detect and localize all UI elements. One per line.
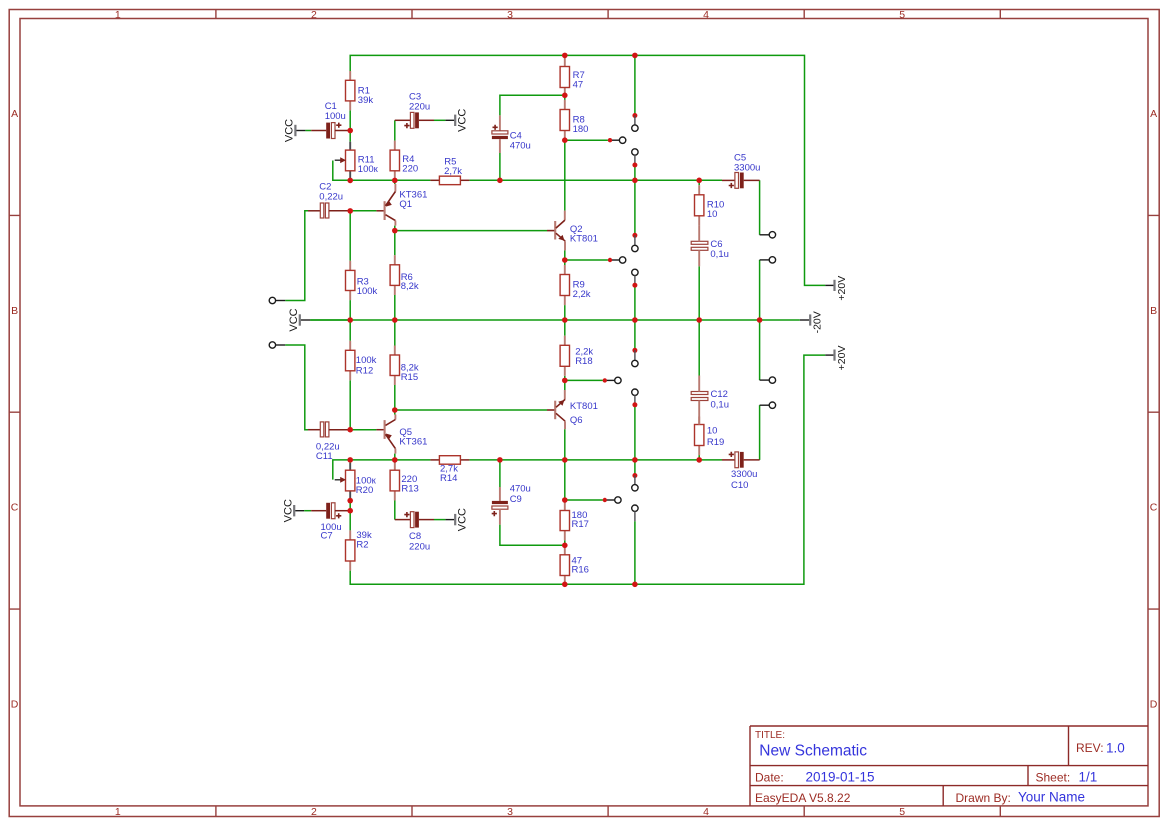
- terminal stub: [760, 379, 770, 381]
- svg-text:A: A: [11, 108, 18, 120]
- junction x7 riser mid rail: [757, 317, 763, 323]
- jumper pin dot: [632, 402, 637, 407]
- capacitor C8: [395, 519, 411, 521]
- wire jumper column x5: [634, 55, 636, 584]
- jumper pin dot: [632, 113, 637, 118]
- wire C9 top: [499, 460, 501, 487]
- wire mid rail: [310, 319, 800, 321]
- resistor R8: [564, 100, 566, 110]
- svg-text:4: 4: [703, 9, 709, 21]
- svg-text:2,2k: 2,2k: [573, 289, 591, 300]
- jumper pin dot: [632, 163, 637, 168]
- jumper pin stub: [634, 476, 636, 485]
- wire R8 junction to Q2 collector: [564, 140, 566, 210]
- svg-text:D: D: [1150, 698, 1158, 710]
- resistor R3: [349, 261, 351, 271]
- svg-text:R19: R19: [707, 437, 724, 448]
- svg-text:KT361: KT361: [399, 436, 427, 447]
- svg-text:Sheet:: Sheet:: [1036, 771, 1071, 785]
- jumper pin circle: [632, 245, 638, 251]
- input terminal 1 circle: [269, 297, 275, 303]
- wire R18 stub: [565, 379, 603, 381]
- junction C2/R3 node: [347, 208, 353, 214]
- svg-text:VCC: VCC: [457, 109, 469, 132]
- svg-text:47: 47: [573, 79, 584, 90]
- junction R20 wiper rail: [347, 457, 353, 463]
- junction Q2 emitter stub node: [562, 257, 568, 263]
- wire input 1 to C2 row: [285, 211, 308, 301]
- wire C3 corner to R4: [394, 120, 396, 140]
- junction Q6 collector rail: [562, 457, 568, 463]
- junction jumper col mid rail: [632, 317, 638, 323]
- wire x7 mid rail to stub: [759, 320, 761, 380]
- wire C2 junction to Q1 base: [350, 210, 376, 212]
- wire C6 bottom to mid rail: [698, 266, 700, 320]
- svg-text:Date:: Date:: [755, 771, 784, 785]
- capacitor C9: [499, 487, 501, 501]
- junction C9 rail: [497, 457, 503, 463]
- junction C1/R1/R11 node: [347, 128, 353, 134]
- wire R15 bottom to Q5 node: [394, 385, 396, 410]
- resistor R2: [349, 530, 351, 540]
- junction jumper col top rail: [632, 53, 638, 59]
- terminal stub: [612, 139, 620, 141]
- resistor R4: [394, 141, 396, 151]
- wire R20 junction to R2: [349, 501, 351, 531]
- svg-text:1/1: 1/1: [1079, 770, 1098, 785]
- terminal circle: [619, 137, 625, 143]
- wire R7/R8 junction to C4: [500, 95, 565, 115]
- VCC lead at C8: [445, 519, 454, 521]
- svg-text:180: 180: [573, 124, 589, 135]
- wire R15 top: [394, 320, 396, 346]
- wire Q2 emitter node: [565, 250, 608, 265]
- svg-text:3300u: 3300u: [731, 469, 757, 480]
- terminal circle: [619, 257, 625, 263]
- jumper pin circle: [632, 485, 638, 491]
- -20V symbol: [809, 314, 811, 325]
- svg-text:Your Name: Your Name: [1018, 790, 1085, 805]
- jumper pin circle: [632, 149, 638, 155]
- ruler ticks top: [216, 10, 1000, 19]
- wire x7 to C10: [759, 405, 761, 460]
- wire top rail: [350, 55, 825, 285]
- svg-text:2,7k: 2,7k: [444, 166, 462, 177]
- wire R12 top: [349, 320, 351, 341]
- svg-text:1: 1: [115, 806, 121, 818]
- capacitor C6: [691, 241, 708, 244]
- wire input 2 to C11 row: [285, 345, 308, 430]
- terminal circle: [769, 377, 775, 383]
- wire R18 top: [564, 320, 566, 336]
- junction R7 top rail: [562, 53, 568, 59]
- wire C5 left: [699, 179, 722, 181]
- wire Q5 node to Q6 base: [395, 410, 547, 415]
- svg-text:8,2k: 8,2k: [401, 281, 419, 292]
- capacitor C10: [722, 459, 735, 461]
- junction C6/C12 mid rail: [696, 317, 702, 323]
- resistor R1: [349, 71, 351, 80]
- junction R20 bottom node: [347, 498, 353, 504]
- svg-text:220: 220: [402, 163, 418, 174]
- junction jumper col bottom rail: [632, 582, 638, 588]
- -20V lead: [800, 319, 809, 321]
- svg-text:VCC: VCC: [288, 308, 300, 331]
- svg-text:VCC: VCC: [282, 499, 294, 522]
- svg-text:KT801: KT801: [570, 233, 598, 244]
- junction R8/Q2 stub node: [562, 137, 568, 143]
- svg-text:C9: C9: [510, 494, 522, 505]
- wire C5 right riser: [759, 180, 761, 235]
- resistor R18: [564, 336, 566, 346]
- jumper pin circle: [632, 389, 638, 395]
- jumper pin circle: [632, 360, 638, 366]
- junction R11 wiper rail: [347, 178, 353, 184]
- svg-text:4: 4: [703, 806, 709, 818]
- wire R13 bottom to C8 corner: [394, 501, 396, 520]
- svg-text:B: B: [11, 305, 18, 317]
- svg-text:39k: 39k: [358, 95, 374, 106]
- wire Q6 collector to rail2: [564, 429, 566, 460]
- resistor R19: [698, 417, 700, 425]
- wire rail2 to R17 junction: [564, 460, 566, 500]
- wire R19 bottom to rail2: [698, 455, 700, 460]
- terminal stub: [612, 259, 620, 261]
- svg-text:2019-01-15: 2019-01-15: [806, 770, 875, 785]
- terminal circle: [615, 497, 621, 503]
- junction R18/Q6 stub node: [562, 378, 568, 384]
- junction C11/R12 node: [347, 427, 353, 433]
- terminal stub: [607, 379, 615, 381]
- junction R4/Q1 rail: [392, 178, 398, 184]
- transistor Q2: [547, 211, 598, 251]
- ruler ticks bottom: [216, 806, 1000, 817]
- junction C7/R2 node: [347, 508, 353, 514]
- capacitor C1: [305, 130, 311, 132]
- wire C4 to rail1: [499, 153, 501, 180]
- wire rail1 right segment: [469, 179, 722, 181]
- VCC lead at C3: [445, 119, 454, 121]
- resistor R5: [430, 179, 439, 181]
- VCC symbol at C7: [293, 505, 295, 516]
- wire C11 junction to Q5 base: [350, 429, 376, 431]
- VCC lead at C7: [295, 510, 304, 512]
- svg-text:C: C: [1150, 502, 1158, 514]
- wire R3 top: [349, 211, 351, 261]
- jumper pin dot: [632, 233, 637, 238]
- wire mid VCC lead: [310, 319, 350, 321]
- transistor Q5: [385, 415, 428, 454]
- wire rail1 left segment: [333, 161, 431, 181]
- svg-text:VCC: VCC: [284, 119, 296, 142]
- resistor R12: [349, 341, 351, 351]
- wire R20 junction pair: [349, 460, 351, 463]
- svg-text:R13: R13: [401, 484, 418, 495]
- VCC symbol at C8: [454, 514, 456, 525]
- terminal stub: [760, 404, 770, 406]
- terminal dot: [603, 498, 607, 502]
- svg-text:R20: R20: [356, 485, 373, 496]
- svg-text:+20V: +20V: [836, 276, 848, 301]
- svg-text:-20V: -20V: [811, 311, 823, 333]
- svg-text:10: 10: [707, 425, 718, 436]
- svg-text:VCC: VCC: [457, 508, 469, 531]
- svg-text:R14: R14: [440, 473, 457, 484]
- jumper pin stub: [634, 235, 636, 245]
- jumper pin stub: [634, 395, 636, 405]
- wire R17 stub: [565, 499, 603, 501]
- junction R6/R15 mid rail: [392, 317, 398, 323]
- resistor R14: [430, 459, 439, 461]
- svg-text:+20V: +20V: [836, 345, 848, 370]
- svg-text:3: 3: [507, 9, 513, 21]
- wire x7 lower segment to mid rail: [759, 260, 761, 320]
- title block lines: [750, 726, 1148, 806]
- svg-text:A: A: [1150, 108, 1157, 120]
- terminal stub: [760, 234, 770, 236]
- svg-text:R17: R17: [572, 519, 589, 530]
- wire mid rail to C12: [698, 320, 700, 376]
- jumper pin stub: [634, 116, 636, 126]
- svg-text:0,22u: 0,22u: [319, 191, 343, 202]
- wire R10 top: [698, 180, 700, 185]
- svg-text:10: 10: [707, 209, 718, 220]
- svg-text:B: B: [1150, 305, 1157, 317]
- wire R13 top: [394, 460, 396, 470]
- svg-text:100к: 100к: [358, 164, 379, 175]
- ruler ticks left: [9, 215, 20, 609]
- svg-text:100k: 100k: [357, 286, 378, 297]
- terminal dot: [608, 138, 612, 142]
- terminal dot: [603, 378, 607, 382]
- terminal stub: [760, 259, 770, 261]
- jumper pin stub: [634, 275, 636, 285]
- svg-text:0,1u: 0,1u: [710, 249, 729, 260]
- ruler ticks right: [1148, 215, 1159, 609]
- wire C1 junction to R11: [349, 131, 351, 142]
- resistor R15: [394, 346, 396, 356]
- wire R12 bottom to C11 junction: [349, 380, 351, 429]
- transistor Q6: [547, 390, 598, 429]
- transistor Q1: [385, 180, 428, 225]
- jumper pin dot: [632, 283, 637, 288]
- junction R17 stub node: [562, 497, 568, 503]
- junction Q1 emitter node: [392, 228, 398, 234]
- terminal dot: [608, 258, 612, 262]
- wire Q1 emitter node to Q2 base and R6: [395, 226, 547, 256]
- svg-text:220u: 220u: [409, 541, 430, 552]
- junction Q5 collector node: [392, 407, 398, 413]
- capacitor C4: [499, 115, 501, 130]
- svg-text:Drawn By:: Drawn By:: [956, 791, 1011, 805]
- svg-text:5: 5: [899, 9, 905, 21]
- wire R18 bottom to stub junction: [564, 376, 566, 381]
- junction R9/R18 mid rail: [562, 317, 568, 323]
- terminal circle: [769, 257, 775, 263]
- wire R8 top: [564, 95, 566, 100]
- +20V symbol lower: [833, 350, 835, 361]
- wire rail2 left segment: [333, 460, 431, 480]
- svg-text:3: 3: [507, 806, 513, 818]
- svg-text:KT801: KT801: [570, 401, 598, 412]
- +20V symbol upper: [833, 280, 835, 291]
- potentiometer R11: [349, 142, 351, 150]
- junction R19/C10 rail: [696, 457, 702, 463]
- capacitor C7: [304, 510, 311, 512]
- svg-text:470u: 470u: [510, 484, 531, 495]
- wire R9 bottom to mid rail: [564, 305, 566, 320]
- wire R8 stub: [565, 139, 608, 141]
- svg-text:1.0: 1.0: [1106, 741, 1125, 756]
- svg-text:C12: C12: [711, 389, 728, 400]
- input terminal 2 circle: [269, 342, 275, 348]
- svg-text:EasyEDA V5.8.22: EasyEDA V5.8.22: [755, 791, 851, 805]
- svg-text:C: C: [11, 502, 19, 514]
- resistor R16: [564, 545, 566, 555]
- jumper pin stub: [634, 511, 636, 521]
- junction R13/Q5 rail: [392, 457, 398, 463]
- svg-text:100u: 100u: [325, 111, 346, 122]
- VCC lead at C1: [297, 130, 306, 132]
- wire R2 bottom + bottom rail + right riser to +20V: [350, 355, 825, 584]
- jumper pin stub: [634, 350, 636, 360]
- svg-text:220u: 220u: [409, 101, 430, 112]
- jumper pin dot: [632, 473, 637, 478]
- input terminal 2 stub: [276, 344, 286, 346]
- capacitor C3: [395, 119, 411, 121]
- junction R3/R12 mid rail: [347, 317, 353, 323]
- svg-text:R15: R15: [401, 372, 418, 383]
- svg-text:C10: C10: [731, 480, 748, 491]
- VCC symbol mid rail: [299, 314, 301, 325]
- svg-text:New Schematic: New Schematic: [759, 743, 867, 760]
- wire R6 bottom to mid rail: [394, 295, 396, 320]
- svg-text:R2: R2: [356, 540, 368, 551]
- capacitor C11: [308, 429, 320, 431]
- svg-text:R12: R12: [356, 365, 373, 376]
- svg-text:3300u: 3300u: [734, 163, 760, 174]
- svg-text:5: 5: [899, 806, 905, 818]
- terminal circle: [615, 377, 621, 383]
- jumper pin stub: [634, 155, 636, 165]
- wire R1 bottom to C1 junction: [349, 110, 351, 130]
- resistor R17: [564, 500, 566, 511]
- resistor R13: [394, 461, 396, 471]
- terminal circle: [769, 402, 775, 408]
- capacitor C12: [691, 392, 708, 395]
- VCC lead mid rail: [301, 319, 310, 321]
- capacitor C2: [308, 210, 320, 212]
- wire C9 bottom to R17/R16 junction: [500, 525, 565, 546]
- svg-text:0,1u: 0,1u: [711, 400, 730, 411]
- wire Q6 emitter: [564, 380, 566, 390]
- svg-text:1: 1: [115, 9, 121, 21]
- svg-text:2: 2: [311, 9, 317, 21]
- wire R3 bottom to mid rail: [349, 300, 351, 320]
- terminal stub: [607, 499, 615, 501]
- junction jumper col rail2: [632, 457, 638, 463]
- wire Q5 emitter to rail2: [394, 454, 396, 460]
- svg-text:Q1: Q1: [399, 199, 412, 210]
- resistor R9: [564, 265, 566, 275]
- jumper pin circle: [632, 269, 638, 275]
- svg-text:470u: 470u: [510, 140, 531, 151]
- junction jumper col rail1: [632, 178, 638, 184]
- wire R17 bottom to junction: [564, 540, 566, 545]
- wire R7 top: [564, 55, 566, 57]
- svg-text:C8: C8: [409, 531, 421, 542]
- capacitor C5: [722, 179, 735, 181]
- svg-text:TITLE:: TITLE:: [755, 730, 785, 741]
- VCC symbol at C3: [454, 115, 456, 126]
- svg-text:Q6: Q6: [570, 415, 583, 426]
- svg-text:2: 2: [311, 806, 317, 818]
- svg-text:C11: C11: [316, 451, 333, 462]
- svg-text:REV:: REV:: [1076, 741, 1104, 755]
- junction C9/R16/R17 node: [562, 543, 568, 549]
- junction R7/R8 node: [562, 93, 568, 99]
- svg-text:C7: C7: [321, 530, 333, 541]
- junction R10/C5 rail: [696, 178, 702, 184]
- +20V lead upper: [825, 284, 833, 286]
- terminal circle: [769, 232, 775, 238]
- input terminal 1 stub: [276, 300, 286, 302]
- junction C4 rail: [497, 178, 503, 184]
- jumper pin circle: [632, 125, 638, 131]
- resistor R6: [394, 255, 396, 265]
- junction R16 bottom rail: [562, 582, 568, 588]
- resistor R7: [564, 57, 566, 67]
- +20V lead lower: [825, 354, 833, 356]
- potentiometer R20: [349, 463, 351, 470]
- wire rail2 right segment: [469, 459, 722, 461]
- svg-text:R18: R18: [575, 356, 592, 367]
- VCC symbol at C1: [294, 125, 296, 136]
- resistor R10: [698, 185, 700, 195]
- svg-text:R16: R16: [572, 565, 589, 576]
- svg-text:D: D: [11, 698, 19, 710]
- jumper pin dot: [632, 348, 637, 353]
- jumper pin circle: [632, 505, 638, 511]
